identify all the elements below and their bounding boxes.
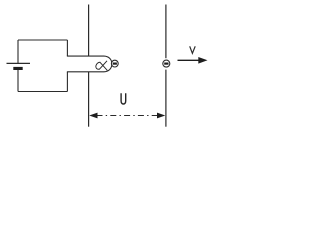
wire battery loop bottom xyxy=(18,91,67,93)
velocity arrow head xyxy=(198,57,207,64)
electron e2 minus xyxy=(164,63,168,65)
wire cathode feed bottom xyxy=(67,71,104,73)
wire battery loop top xyxy=(18,39,67,41)
plate P2 lower segment xyxy=(165,70,167,127)
battery B1 positive plate xyxy=(7,62,31,64)
electron e2 circle xyxy=(163,60,170,67)
filament loop xyxy=(96,61,108,71)
plate P1 lower segment xyxy=(88,72,90,127)
wire battery loop left upper xyxy=(17,40,19,63)
wire cathode feed top xyxy=(67,55,104,57)
plate P2 upper segment xyxy=(165,5,167,59)
wire battery loop right upper xyxy=(66,40,68,56)
electron e1 minus xyxy=(113,63,117,65)
velocity arrow shaft xyxy=(178,59,200,61)
battery B1 negative plate xyxy=(13,67,22,70)
dimension arrow left xyxy=(89,113,97,119)
wire battery loop left lower xyxy=(17,70,19,92)
plate P1 upper segment xyxy=(88,5,90,57)
dimension line dash-dot xyxy=(97,115,159,117)
wire battery loop right lower xyxy=(66,72,68,92)
dimension arrow right xyxy=(157,113,165,119)
label v xyxy=(190,46,196,53)
label U xyxy=(121,93,126,104)
electron e1 circle xyxy=(111,60,118,67)
cathode bulb nose xyxy=(104,56,112,72)
